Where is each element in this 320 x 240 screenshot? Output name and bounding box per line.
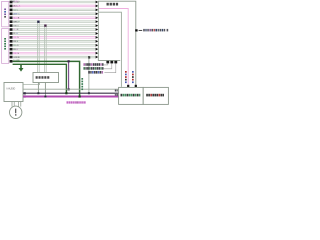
wire from pin 15 to head unit — [13, 56, 96, 58]
label beside right drop wire — [132, 71, 134, 83]
wire from pin 10 to head unit — [13, 37, 96, 39]
bottom pin 3 label — [88, 71, 103, 74]
pin 7 — [10, 24, 13, 27]
line power thick magenta — [23, 96, 119, 98]
connector CN2 lower housing vertical label — [4, 38, 6, 50]
wire from pin 2 to head unit — [13, 5, 96, 7]
junction drop wire on signal line — [88, 92, 90, 94]
connector CN2 lower housing — [2, 29, 9, 64]
wire from pin 6 to head unit — [13, 21, 96, 23]
junction amp power out — [24, 95, 26, 97]
svg-text:ACC+K: ACC+K — [13, 5, 21, 8]
svg-text:RL-S: RL-S — [13, 49, 18, 51]
pin 5 — [10, 16, 13, 19]
svg-text:REV·I: REV·I — [13, 25, 19, 27]
pin 10 — [10, 36, 13, 39]
svg-text:RL+S: RL+S — [13, 45, 19, 47]
head unit bottom pin 2 — [110, 61, 113, 64]
wire from pin 8 to head unit — [13, 29, 96, 31]
control module M1 — [119, 87, 144, 104]
connector CN1 upper housing vertical label — [4, 9, 6, 18]
wire from pin 14 to head unit — [13, 52, 96, 54]
svg-text:ANT·C: ANT·C — [13, 13, 20, 16]
ground wire (thick green) upper — [13, 61, 80, 96]
line remote thin grey — [23, 88, 119, 90]
tap wire from pin 7 down to relay module — [45, 26, 47, 73]
callout arrow to rear-view note — [135, 29, 137, 31]
bottom pin 2 label — [83, 67, 103, 70]
line signal dark — [23, 92, 119, 94]
pin 14 — [10, 52, 13, 55]
display module M2 — [143, 87, 168, 104]
svg-text:FL-S: FL-S — [13, 33, 18, 35]
pin 3 — [10, 9, 13, 12]
svg-text:RR+S: RR+S — [13, 53, 19, 55]
wire inner grey loop to module — [99, 12, 121, 87]
head unit bottom edge — [98, 60, 120, 62]
amplifier box AUDIO — [4, 83, 23, 102]
svg-text:FR-S: FR-S — [13, 41, 18, 43]
junction on wire 16 — [88, 56, 90, 58]
pin 2 — [10, 5, 13, 8]
pin 8 — [10, 28, 13, 31]
junction green-lower on dark line — [65, 92, 67, 94]
label beside pink drop wire — [125, 71, 127, 83]
svg-text:GNDB: GNDB — [13, 57, 20, 59]
green wire vertical label — [81, 78, 83, 90]
module M1 label — [121, 94, 141, 97]
bottom pin 1 label — [83, 63, 103, 66]
head unit bottom pin 1 — [106, 61, 109, 64]
svg-text:E·GND: E·GND — [13, 60, 20, 62]
junction amp signal out — [24, 92, 26, 94]
rear-view note — [143, 29, 165, 32]
tap wire from pin 6 down to relay module — [38, 22, 40, 73]
arrowheads at head-unit connector edge — [96, 1, 99, 59]
drop wire from wire 15 to signal line — [88, 57, 90, 93]
ground wire (thick green) lower — [13, 64, 67, 93]
wire from pin 5 to head unit — [13, 17, 96, 19]
pin 11 — [10, 40, 13, 43]
wire from pin 3 to head unit — [13, 9, 96, 11]
leader line pin B3 — [104, 63, 115, 72]
module entry tag B — [115, 94, 118, 96]
head unit label — [107, 3, 119, 6]
relay module leads down — [37, 83, 39, 94]
pin 1 — [10, 1, 13, 4]
head unit bottom pin 3 — [114, 61, 117, 64]
junction dots at module top — [127, 85, 129, 87]
svg-text:FR+S: FR+S — [13, 37, 19, 39]
wire from pin 1 to head unit — [13, 1, 96, 3]
purple sense wire — [68, 61, 70, 89]
leader line pin B2 — [104, 63, 112, 68]
pin 15 — [10, 56, 13, 59]
connector CN1 upper housing — [2, 1, 9, 26]
module M2 label — [146, 94, 164, 97]
svg-text:6-AUDIO: 6-AUDIO — [6, 88, 15, 91]
wire from pin 4 to head unit — [13, 13, 96, 15]
junction on wire 6 — [37, 21, 39, 23]
pin 13 — [10, 48, 13, 51]
pin 12 — [10, 44, 13, 47]
pin 4 — [10, 13, 13, 16]
speaker LS1 — [10, 106, 22, 118]
svg-text:BAT12V: BAT12V — [11, 0, 19, 3]
wire from pin 12 to head unit — [13, 44, 96, 46]
junction relay lead on dark line — [37, 92, 39, 94]
pin 17 (power lead) — [10, 60, 13, 63]
wire inner pink loop to module — [99, 9, 128, 87]
ground arrow — [20, 64, 22, 68]
wire from pin 7 to head unit — [13, 25, 96, 27]
pin 6 — [10, 20, 13, 23]
svg-text:BRK·P: BRK·P — [13, 21, 20, 23]
power line label — [67, 101, 86, 103]
wire from pin 13 to head unit — [13, 48, 96, 50]
relay module K1 — [33, 73, 59, 83]
svg-text:MUTE: MUTE — [13, 17, 19, 19]
junction on wire 7 — [44, 24, 46, 26]
junction relay lead on magenta line — [44, 96, 46, 98]
pin 9 — [10, 32, 13, 35]
svg-text:FL+S: FL+S — [13, 29, 19, 31]
module entry tag A — [115, 90, 118, 92]
line audio out thin — [23, 84, 40, 86]
wire from pin 9 to head unit — [13, 33, 96, 35]
amplifier speaker leads — [11, 102, 13, 107]
junction green-upper on magenta line — [79, 95, 81, 97]
wire from pin 11 to head unit — [13, 41, 96, 43]
leader line pin B1 — [104, 63, 108, 65]
rear-view note tail — [167, 29, 169, 32]
head unit U1 (rear view) — [98, 1, 136, 87]
